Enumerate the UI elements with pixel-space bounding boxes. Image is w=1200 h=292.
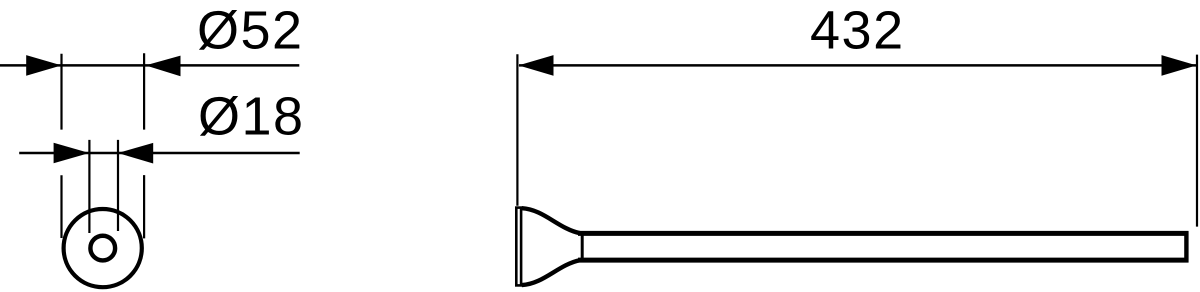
arrowhead D18 right bbox=[118, 143, 154, 164]
svg-text:432: 432 bbox=[810, 0, 905, 60]
extension line 432 left bbox=[516, 54, 518, 206]
extension line D18 left bbox=[88, 140, 90, 233]
arrowhead D52 right bbox=[146, 56, 181, 77]
trumpet bell bottom curve bbox=[522, 260, 580, 285]
trumpet bell top curve bbox=[522, 208, 580, 233]
arrowhead D18 left bbox=[54, 143, 90, 164]
dimension line 432 bbox=[519, 64, 1197, 67]
dimension line D52 bbox=[0, 64, 299, 67]
bar end cap bbox=[1184, 231, 1188, 262]
bar bottom edge bbox=[578, 258, 1189, 263]
arrowhead 432 left bbox=[519, 55, 554, 76]
bar top edge bbox=[578, 231, 1189, 236]
wall plate of flange side view bbox=[516, 208, 521, 286]
extension line 432 right bbox=[1196, 55, 1198, 227]
extension line D18 right bbox=[117, 140, 119, 231]
svg-text:Ø18: Ø18 bbox=[198, 86, 305, 146]
joint line between neck and bar bbox=[581, 233, 584, 261]
arrowhead 432 right bbox=[1162, 55, 1197, 76]
outer circle of rosette front view bbox=[64, 209, 142, 287]
svg-text:Ø52: Ø52 bbox=[197, 1, 304, 61]
extension line D52 left bbox=[60, 54, 62, 238]
inner circle bar hole front view bbox=[90, 236, 115, 261]
extension line D52 right bbox=[143, 53, 145, 238]
arrowhead D52 left bbox=[26, 55, 61, 76]
dimension line D18 bbox=[19, 152, 300, 155]
